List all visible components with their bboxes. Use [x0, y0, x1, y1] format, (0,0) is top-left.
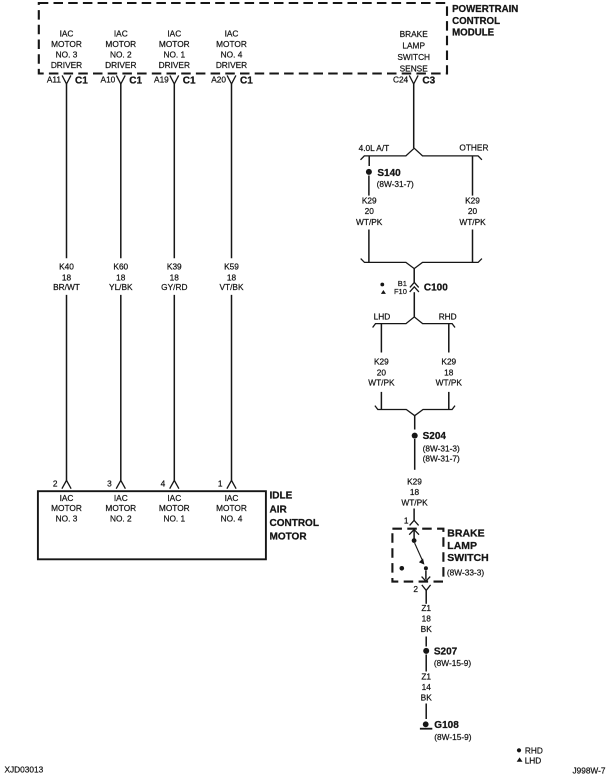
switch contact node — [424, 566, 428, 570]
svg-text:BK: BK — [421, 624, 433, 634]
svg-text:CONTROL: CONTROL — [452, 16, 500, 27]
legend LHD marker — [517, 755, 542, 765]
wire K39 upper segment — [173, 84, 175, 258]
wire below S207 — [425, 655, 427, 672]
svg-text:Z1: Z1 — [421, 603, 431, 613]
pin 1 of brake lamp switch — [404, 516, 419, 526]
wire LHD branch upper segment — [380, 324, 382, 353]
svg-text:18: 18 — [422, 614, 432, 624]
wire K60 upper segment — [120, 84, 122, 258]
connector C100 — [410, 282, 449, 293]
svg-text:SWITCH: SWITCH — [397, 52, 430, 62]
svg-text:14: 14 — [422, 682, 432, 692]
pin F10 marker LHD — [381, 287, 407, 296]
svg-text:MOTOR: MOTOR — [105, 503, 136, 513]
wire into C100 — [413, 269, 415, 283]
svg-text:NO. 2: NO. 2 — [110, 50, 132, 60]
svg-text:C1: C1 — [75, 76, 88, 87]
wire Z1 upper segment — [425, 590, 427, 603]
svg-text:(8W-31-7): (8W-31-7) — [423, 453, 460, 463]
splice S204 — [412, 431, 460, 463]
svg-text:K39: K39 — [167, 261, 182, 271]
svg-text:K29: K29 — [374, 357, 389, 367]
svg-text:BR/WT: BR/WT — [53, 282, 80, 292]
svg-text:BRAKE: BRAKE — [447, 528, 484, 540]
pin B1 marker RHD — [380, 279, 407, 288]
svg-text:(8W-33-3): (8W-33-3) — [447, 568, 484, 578]
svg-text:K40: K40 — [59, 261, 74, 271]
svg-text:WT/PK: WT/PK — [368, 378, 395, 388]
wire label Z1 18 BK — [421, 603, 433, 634]
svg-text:G108: G108 — [434, 720, 459, 731]
svg-text:J998W-7: J998W-7 — [572, 766, 605, 776]
switch input terminal arrow — [409, 530, 419, 539]
svg-text:20: 20 — [377, 367, 387, 377]
split symbol to 4.0L A/T and OTHER branches — [361, 148, 482, 160]
label IDLE AIR CONTROL MOTOR — [270, 491, 319, 543]
svg-text:NO. 1: NO. 1 — [163, 514, 185, 524]
wire into S204 — [414, 416, 416, 430]
label IAC MOTOR NO.4 DRIVER — [216, 29, 247, 70]
svg-text:IAC: IAC — [114, 29, 128, 39]
wire label K29 20 WT/PK LHD — [368, 357, 395, 388]
pin A20 connector C1 — [211, 75, 253, 87]
svg-text:4: 4 — [161, 479, 166, 489]
RHD position marker — [400, 566, 405, 571]
pin C24 connector C3 — [393, 75, 436, 87]
ground G108 — [420, 720, 472, 742]
rejoin symbol of option branches — [361, 259, 482, 269]
wire label Z1 14 BK — [421, 671, 433, 702]
svg-text:MOTOR: MOTOR — [159, 39, 190, 49]
pin 2 of brake lamp switch — [413, 584, 430, 594]
svg-text:DRIVER: DRIVER — [105, 60, 136, 70]
svg-text:A10: A10 — [101, 75, 116, 85]
svg-text:IAC: IAC — [114, 493, 128, 503]
svg-text:MOTOR: MOTOR — [159, 503, 190, 513]
svg-text:LAMP: LAMP — [402, 41, 425, 51]
svg-text:C100: C100 — [424, 282, 448, 293]
svg-text:1: 1 — [218, 479, 223, 489]
svg-text:(8W-15-9): (8W-15-9) — [434, 732, 471, 742]
svg-text:A11: A11 — [47, 75, 62, 85]
label IAC MOTOR NO.2 — [105, 493, 136, 524]
svg-text:IDLE: IDLE — [270, 491, 293, 502]
split symbol to LHD and RHD branches — [373, 317, 455, 328]
svg-text:DRIVER: DRIVER — [216, 60, 247, 70]
wire label K29 20 WT/PK right branch — [459, 196, 486, 228]
svg-text:F10: F10 — [394, 287, 407, 296]
wire LHD branch lower segment — [380, 392, 382, 410]
svg-text:C3: C3 — [422, 76, 435, 87]
wire below S140 — [368, 176, 370, 196]
svg-text:NO. 3: NO. 3 — [56, 514, 78, 524]
pin 4 of IAC motor — [161, 479, 179, 489]
svg-text:1: 1 — [404, 516, 409, 526]
wire K29 from C24 — [413, 84, 415, 148]
svg-text:MOTOR: MOTOR — [270, 531, 308, 542]
wire K60 lower segment — [120, 295, 122, 481]
pin 3 of IAC motor — [107, 479, 125, 489]
svg-text:K29: K29 — [362, 196, 377, 206]
svg-text:NO. 1: NO. 1 — [163, 50, 185, 60]
label BRAKE LAMP SWITCH SENSE — [397, 29, 430, 73]
svg-text:K29: K29 — [465, 196, 480, 206]
pin 1 of IAC motor — [218, 479, 236, 489]
splice S140 — [366, 168, 414, 189]
svg-text:WT/PK: WT/PK — [436, 378, 463, 388]
wire label K29 18 WT/PK — [401, 476, 428, 507]
svg-text:18: 18 — [410, 487, 420, 497]
label BRAKE LAMP SWITCH — [447, 528, 489, 578]
svg-text:BRAKE: BRAKE — [400, 29, 429, 39]
label IAC MOTOR NO.3 — [51, 493, 82, 524]
svg-text:MOTOR: MOTOR — [51, 503, 82, 513]
svg-text:20: 20 — [468, 206, 478, 216]
svg-text:2: 2 — [53, 479, 58, 489]
wire RHD branch lower segment — [448, 392, 450, 410]
wire 4.0L A/T branch stub — [368, 156, 370, 166]
wire label K39 18 GY/RD — [161, 261, 187, 292]
svg-text:Z1: Z1 — [421, 671, 431, 681]
svg-text:K60: K60 — [113, 261, 128, 271]
label POWERTRAIN CONTROL MODULE — [452, 4, 518, 39]
svg-text:LAMP: LAMP — [447, 540, 477, 552]
svg-text:BK: BK — [421, 692, 433, 702]
svg-text:A19: A19 — [154, 75, 169, 85]
label IAC MOTOR NO.4 — [216, 493, 247, 524]
wire left branch lower segment — [368, 230, 370, 263]
svg-text:YL/BK: YL/BK — [109, 282, 133, 292]
svg-text:NO. 2: NO. 2 — [110, 514, 132, 524]
switch output arrow — [422, 571, 431, 582]
svg-text:(8W-31-3): (8W-31-3) — [423, 443, 460, 453]
pin A19 connector C1 — [154, 75, 196, 87]
switch pivot node — [412, 538, 417, 543]
svg-text:IAC: IAC — [60, 493, 74, 503]
label IAC MOTOR NO.1 — [159, 493, 190, 524]
svg-text:K29: K29 — [407, 476, 422, 486]
svg-text:S140: S140 — [377, 168, 401, 179]
svg-text:(8W-31-7): (8W-31-7) — [377, 179, 414, 189]
svg-text:WT/PK: WT/PK — [356, 217, 383, 227]
svg-text:GY/RD: GY/RD — [161, 282, 187, 292]
svg-text:C24: C24 — [393, 75, 409, 85]
wire K40 upper segment — [66, 84, 68, 258]
svg-text:OTHER: OTHER — [459, 142, 488, 152]
svg-text:VT/BK: VT/BK — [220, 282, 244, 292]
svg-text:2: 2 — [413, 584, 418, 594]
svg-text:LHD: LHD — [525, 755, 542, 765]
svg-text:WT/PK: WT/PK — [459, 217, 486, 227]
rejoin symbol of LHD RHD branches — [375, 406, 455, 416]
wire K39 lower segment — [173, 295, 175, 481]
svg-text:MOTOR: MOTOR — [216, 39, 247, 49]
svg-text:WT/PK: WT/PK — [401, 497, 428, 507]
svg-text:4.0L A/T: 4.0L A/T — [359, 143, 390, 153]
svg-text:C1: C1 — [240, 76, 253, 87]
svg-text:DRIVER: DRIVER — [159, 60, 190, 70]
svg-text:IAC: IAC — [225, 29, 239, 39]
svg-text:MOTOR: MOTOR — [216, 503, 247, 513]
wire label K29 20 WT/PK left branch — [356, 196, 383, 228]
splice S207 — [423, 646, 471, 668]
svg-text:3: 3 — [107, 479, 112, 489]
wire into brake lamp switch — [413, 509, 415, 521]
svg-text:NO. 4: NO. 4 — [221, 514, 243, 524]
svg-text:S207: S207 — [434, 646, 458, 657]
svg-text:IAC: IAC — [167, 493, 181, 503]
wire below C100 — [413, 292, 415, 317]
wire below S204 — [414, 439, 416, 470]
wire Z1 into S207 — [425, 637, 427, 647]
wire label K29 18 WT/PK RHD — [436, 357, 463, 388]
svg-text:A20: A20 — [211, 75, 226, 85]
wire label K40 18 BR/WT — [53, 261, 80, 292]
svg-text:K29: K29 — [441, 357, 456, 367]
svg-text:CONTROL: CONTROL — [270, 518, 319, 529]
wire OTHER branch upper segment — [472, 156, 474, 196]
wire label K59 18 VT/BK — [220, 261, 244, 292]
svg-text:IAC: IAC — [167, 29, 181, 39]
svg-text:MOTOR: MOTOR — [51, 39, 82, 49]
wire K59 upper segment — [231, 84, 233, 258]
label IAC MOTOR NO.3 DRIVER — [51, 29, 82, 70]
svg-text:RHD: RHD — [439, 312, 457, 322]
svg-text:LHD: LHD — [374, 312, 391, 322]
label IAC MOTOR NO.1 DRIVER — [159, 29, 190, 70]
wire OTHER branch lower segment — [472, 230, 474, 263]
legend RHD marker — [517, 746, 543, 756]
svg-text:18: 18 — [444, 367, 454, 377]
svg-text:AIR: AIR — [270, 505, 288, 516]
PCM module dashed box — [39, 3, 447, 74]
svg-text:IAC: IAC — [225, 493, 239, 503]
pin A10 connector C1 — [101, 75, 143, 87]
svg-text:MOTOR: MOTOR — [105, 39, 136, 49]
wire K40 lower segment — [66, 295, 68, 481]
switch blade with arrowhead — [415, 543, 425, 565]
brake lamp switch dashed box — [392, 529, 443, 582]
svg-text:MODULE: MODULE — [452, 28, 495, 39]
pin A11 connector C1 — [47, 75, 88, 87]
svg-text:RHD: RHD — [525, 746, 543, 756]
svg-text:(8W-15-9): (8W-15-9) — [434, 658, 471, 668]
svg-text:XJD03013: XJD03013 — [5, 765, 44, 775]
wire K59 lower segment — [231, 295, 233, 481]
svg-text:NO. 3: NO. 3 — [56, 50, 78, 60]
svg-text:IAC: IAC — [60, 29, 74, 39]
wire RHD branch upper segment — [448, 324, 450, 353]
svg-text:C1: C1 — [129, 76, 142, 87]
pin 2 of IAC motor — [53, 479, 71, 489]
svg-text:S204: S204 — [423, 431, 447, 442]
svg-text:SENSE: SENSE — [400, 64, 429, 74]
wire label K60 18 YL/BK — [109, 261, 133, 292]
svg-text:K59: K59 — [224, 261, 239, 271]
svg-text:POWERTRAIN: POWERTRAIN — [452, 4, 518, 15]
IAC motor component box — [38, 491, 266, 559]
svg-text:DRIVER: DRIVER — [51, 60, 82, 70]
svg-text:NO. 4: NO. 4 — [221, 50, 243, 60]
label IAC MOTOR NO.2 DRIVER — [105, 29, 136, 70]
svg-text:20: 20 — [365, 206, 375, 216]
svg-text:SWITCH: SWITCH — [447, 552, 488, 564]
wire Z1 into ground — [425, 704, 427, 720]
svg-text:C1: C1 — [183, 76, 196, 87]
